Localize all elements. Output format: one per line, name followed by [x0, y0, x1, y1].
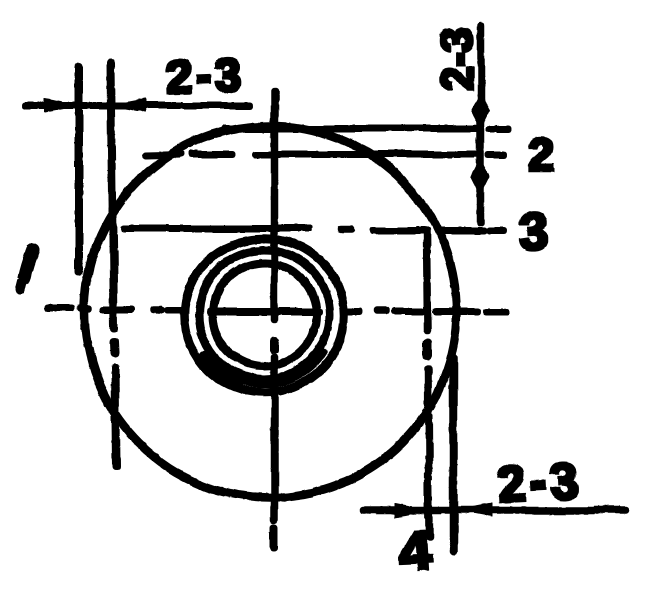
hub extra bottom arc	[210, 349, 325, 385]
hub ring middle	[199, 249, 329, 379]
hub ring inner	[212, 262, 316, 366]
top-left dimension line	[26, 102, 249, 108]
hub extra bottom-left dash	[202, 352, 242, 383]
top-left arrow right	[44, 99, 79, 112]
top tangent line y=128	[225, 125, 476, 131]
label 1	[24, 248, 33, 277]
svg-text:4: 4	[397, 518, 431, 583]
top-left arrow left	[110, 99, 145, 112]
bottom arrow left	[456, 504, 491, 517]
svg-text:2-3: 2-3	[165, 48, 245, 103]
svg-text:2: 2	[528, 128, 554, 180]
chord line y=154 (dashed then solid)	[145, 154, 503, 155]
upper hole centerline y=228 (dash-dot)	[123, 228, 503, 230]
horizontal centerline (dash-dot)	[48, 308, 507, 311]
left extension line 1 (x=79)	[76, 67, 83, 272]
bottom arrow right	[394, 504, 427, 517]
hub ring outer	[184, 238, 344, 392]
right dim arrow lower (up)	[471, 160, 489, 195]
vertical centerline	[271, 91, 278, 547]
right dim arrow upper (down)	[471, 94, 489, 128]
svg-text:2-3: 2-3	[497, 452, 584, 512]
right side vertical dash-dot line x=427	[426, 231, 429, 537]
right edge straight line x=453	[449, 358, 457, 551]
right vertical dimension line (x=480)	[477, 25, 484, 222]
big outer circle of washer	[84, 125, 456, 497]
svg-text:3: 3	[518, 202, 550, 260]
left extension line 2 (x=110..115, dash-dot lower)	[110, 62, 115, 465]
svg-text:2-3: 2-3	[432, 27, 481, 91]
bottom dimension line	[363, 507, 624, 514]
